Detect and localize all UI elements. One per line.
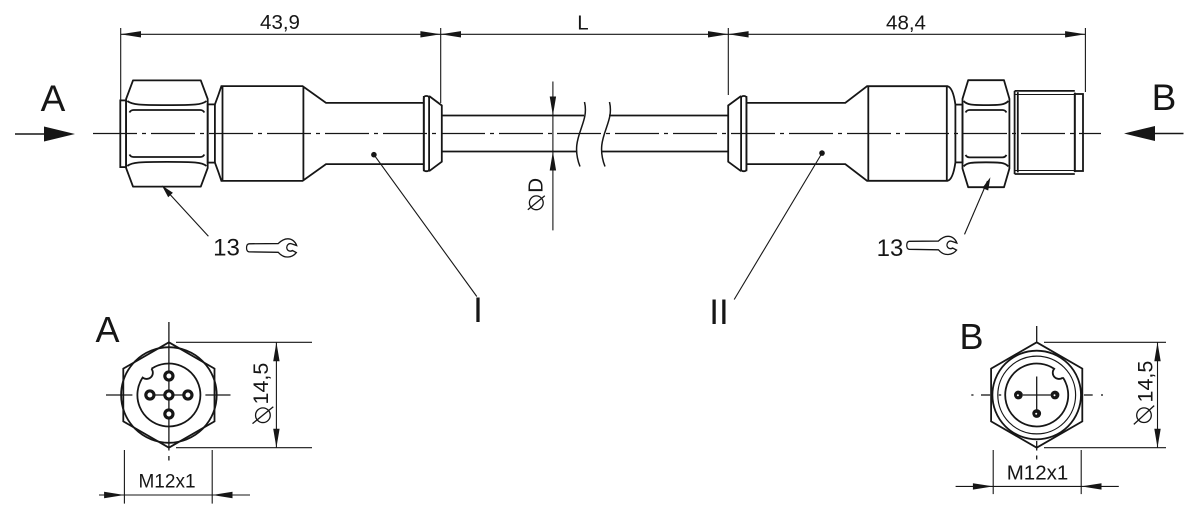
- arrow 43,9 left: [121, 31, 141, 37]
- svg-text:A: A: [95, 309, 119, 350]
- svg-text:M12x1: M12x1: [138, 472, 195, 493]
- thread core top: [1015, 94, 1075, 96]
- extension line right (48,4 end): [1084, 28, 1086, 92]
- arrow to cable top: [550, 97, 556, 116]
- extension line left (43,9 start): [120, 28, 122, 100]
- dim line vertical: [552, 82, 554, 231]
- ext line bottom B: [1044, 447, 1166, 449]
- cable segment 2 bottom: [602, 151, 729, 153]
- dim line vertical B: [1157, 342, 1159, 447]
- hexagon A: [123, 342, 214, 447]
- thread relief line 1: [1014, 91, 1016, 174]
- pin top A: [165, 372, 173, 380]
- extension line shared 43,9/L: [440, 28, 442, 103]
- dimension line L: [441, 33, 729, 35]
- leader line II: [734, 153, 822, 299]
- leader arrowhead right: [982, 177, 990, 190]
- arrow left A (inward): [104, 492, 124, 498]
- ring between nut and body: [208, 104, 215, 162]
- pin bottom A: [165, 410, 173, 418]
- arrow 48,4 left: [728, 31, 748, 37]
- bend protection flange strip (right): [741, 96, 746, 171]
- label dia 14,5 (B, rotated): [1134, 361, 1158, 425]
- ext line left A: [123, 450, 125, 504]
- svg-text:M12x1: M12x1: [1007, 461, 1069, 484]
- leader line wrench left: [165, 189, 208, 236]
- arrow A: [15, 133, 50, 135]
- hex nut face edge upper: [130, 110, 205, 113]
- thread end edge: [1074, 93, 1076, 173]
- label dia 14,5 (A, rotated): [249, 363, 273, 424]
- arrow 48,4 right: [1065, 31, 1085, 37]
- leader dot II: [819, 150, 825, 156]
- svg-text:14,5: 14,5: [249, 363, 273, 405]
- hex nut (right): [963, 80, 1010, 187]
- ext line left B: [992, 450, 994, 494]
- arrow L left: [441, 31, 461, 37]
- ext line right A: [211, 450, 213, 504]
- arrow down A: [273, 429, 279, 448]
- leader line wrench right: [965, 181, 988, 234]
- thread core circle B: [998, 356, 1076, 434]
- arrow L right: [708, 31, 728, 37]
- bend protection flange strip: [424, 96, 429, 171]
- svg-text:A: A: [41, 78, 66, 119]
- main body with chamfered nose: [215, 86, 424, 181]
- centerline vertical B: [1036, 326, 1038, 342]
- arrow up A: [273, 342, 279, 361]
- hex nut chamfer line upper: [127, 101, 206, 105]
- cable segment 1 bottom: [442, 151, 577, 153]
- svg-text:14,5: 14,5: [1134, 361, 1158, 403]
- pin right B: [1051, 391, 1060, 400]
- hex chamfer line upper (right): [964, 101, 1009, 105]
- bend protection cone: [429, 96, 442, 171]
- ext line bottom A: [176, 447, 312, 449]
- dim line M12x1 A: [99, 494, 250, 496]
- thread core bottom: [1015, 170, 1075, 172]
- wrench icon left: [247, 239, 297, 257]
- hex chamfer line lower (right): [964, 162, 1009, 166]
- svg-text:I: I: [473, 291, 483, 330]
- hex nut face edge lower: [130, 155, 205, 158]
- svg-text:D: D: [525, 178, 548, 193]
- cable segment 2 top: [609, 115, 728, 117]
- dim line M12x1 B: [956, 485, 1119, 487]
- arrow right A (inward): [212, 492, 232, 498]
- pin bottom B: [1032, 409, 1041, 418]
- chamfer circle A: [121, 347, 217, 443]
- ext line top B: [1044, 341, 1166, 343]
- centerline main view: [93, 133, 1101, 135]
- pin left A: [146, 391, 154, 399]
- pin right A: [184, 391, 192, 399]
- thread outer bottom: [1015, 173, 1075, 175]
- arrow to cable bottom: [550, 152, 556, 171]
- flange edge line (right): [745, 96, 747, 171]
- insert circle B with keyway notch at 45deg: [1005, 363, 1068, 426]
- hex face edge upper (right): [966, 110, 1007, 113]
- bend protection cone (right): [728, 96, 741, 171]
- break curve left: [577, 102, 586, 167]
- dim line vertical A: [275, 342, 277, 447]
- arrow right B (inward): [1081, 483, 1101, 489]
- dimension line 48,4: [728, 33, 1085, 35]
- thread OD circle B: [992, 351, 1081, 440]
- hex face edge lower (right): [966, 155, 1007, 158]
- pin left B: [1014, 391, 1023, 400]
- thread outer top: [1015, 90, 1075, 92]
- hex nut chamfer line lower: [127, 162, 206, 166]
- arrow down B: [1154, 429, 1160, 448]
- insert circle A with keyway notch at 135deg: [137, 363, 200, 426]
- centerline horizontal B: [971, 394, 973, 396]
- extension line shared L/48,4: [727, 28, 729, 95]
- arrow 43,9 right: [420, 31, 440, 37]
- svg-text:L: L: [577, 12, 588, 35]
- leader line I: [374, 155, 477, 297]
- arrow left B (inward): [973, 483, 993, 489]
- thread relief line 2: [1017, 92, 1019, 172]
- svg-text:B: B: [1152, 77, 1177, 118]
- leader dot I: [371, 152, 377, 158]
- cable segment 1 top: [442, 115, 584, 117]
- centerline horizontal A: [106, 394, 132, 396]
- ext line top A: [176, 341, 312, 343]
- centerline vertical A: [168, 322, 170, 451]
- hexagon B: [991, 342, 1082, 447]
- svg-text:13: 13: [213, 235, 240, 262]
- svg-text:II: II: [709, 293, 728, 332]
- svg-text:43,9: 43,9: [260, 11, 300, 34]
- svg-text:B: B: [959, 316, 983, 357]
- svg-text:48,4: 48,4: [886, 12, 926, 35]
- arrow B: [1150, 133, 1184, 135]
- ring between body and nut (right): [955, 105, 962, 163]
- svg-text:13: 13: [877, 235, 904, 262]
- pin center A: [165, 391, 173, 399]
- arrow up B: [1154, 342, 1160, 361]
- leader arrowhead: [162, 185, 173, 197]
- break curve right: [602, 102, 611, 167]
- dimension line 43,9: [121, 33, 441, 35]
- wrench icon right: [907, 236, 957, 254]
- end ring: [1075, 94, 1083, 171]
- ext line right B: [1080, 450, 1082, 494]
- front washer ring: [120, 100, 126, 167]
- cylinder + body (right): [746, 86, 955, 181]
- flange edge line: [423, 96, 425, 171]
- label D with diameter sign (rotated): [525, 178, 548, 210]
- hex nut body: [126, 80, 208, 186]
